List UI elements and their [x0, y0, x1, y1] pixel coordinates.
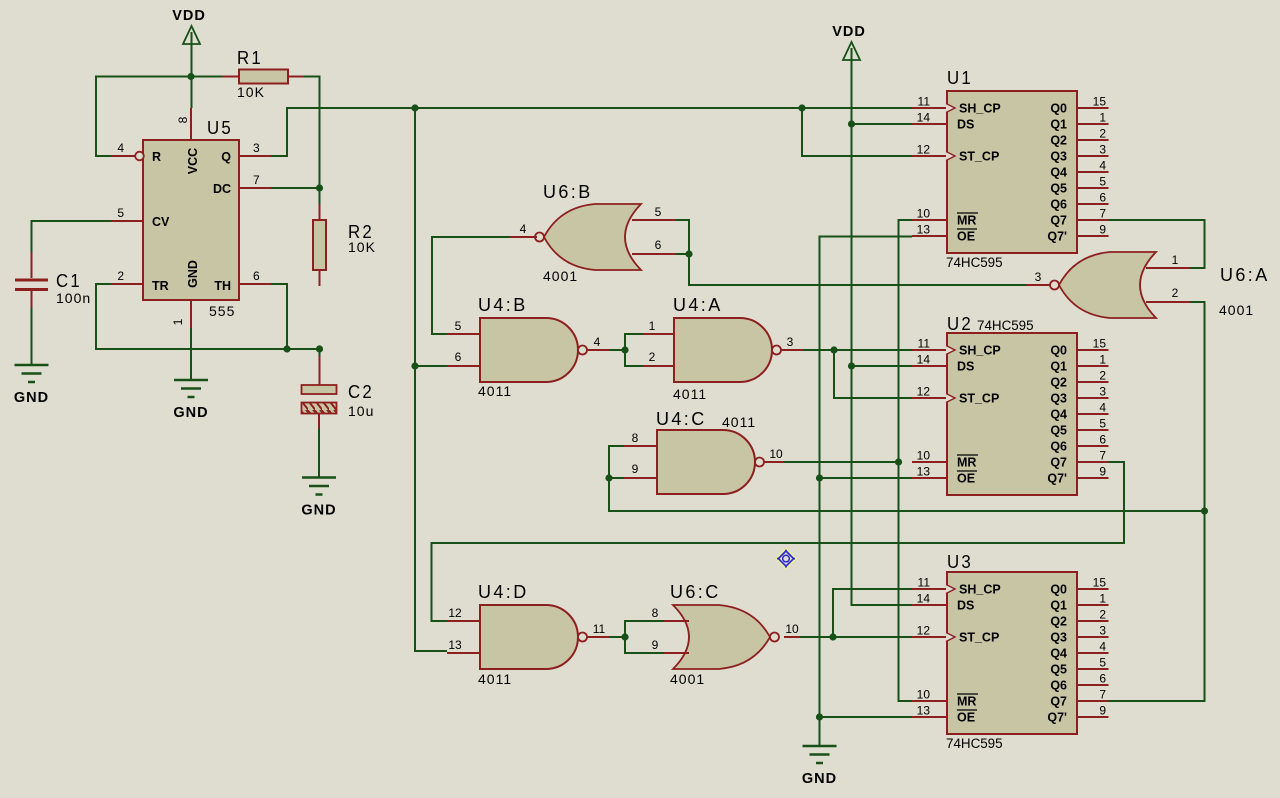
NAND gate U4:C [656, 409, 764, 494]
svg-text:11: 11 [918, 95, 931, 109]
junction [316, 184, 323, 191]
pin 10 U4:C output [764, 461, 784, 463]
svg-text:4: 4 [520, 222, 527, 236]
svg-text:9: 9 [1099, 223, 1106, 237]
wire U6:B input tie [676, 220, 689, 254]
NAND gate U4:D [478, 582, 587, 687]
pin 3 U6:A output [1026, 284, 1051, 286]
svg-text:Q7': Q7' [1047, 230, 1067, 244]
junction [895, 458, 902, 465]
junction [816, 474, 823, 481]
svg-text:SH_CP: SH_CP [959, 344, 1001, 358]
svg-text:10K: 10K [348, 239, 376, 255]
svg-text:74HC595: 74HC595 [946, 736, 1003, 751]
svg-text:10: 10 [917, 688, 931, 702]
svg-text:5: 5 [1099, 417, 1106, 431]
svg-text:9: 9 [1099, 465, 1106, 479]
svg-text:4: 4 [1099, 401, 1106, 415]
svg-text:2: 2 [1099, 127, 1106, 141]
wire U2 Q7 to U4:D pin12 [432, 462, 1125, 621]
svg-text:100n: 100n [56, 290, 91, 306]
svg-text:4011: 4011 [722, 414, 756, 430]
wire OE rail to U3 OE [820, 716, 913, 718]
wire branch to U1 ST_CP [802, 108, 912, 156]
svg-text:Q1: Q1 [1050, 599, 1067, 613]
svg-text:6: 6 [455, 350, 462, 364]
svg-text:10: 10 [769, 447, 783, 461]
svg-text:DS: DS [957, 118, 974, 132]
pin 10 U6:C output [784, 636, 800, 638]
NAND gate U4:B [478, 295, 587, 399]
svg-text:VCC: VCC [186, 148, 200, 174]
svg-text:VDD: VDD [832, 24, 866, 40]
resistor R2 [313, 204, 376, 286]
junction [283, 345, 290, 352]
svg-text:GND: GND [186, 260, 200, 288]
svg-text:4001: 4001 [670, 671, 705, 687]
wire U4:A output to U2 SH_CP [803, 349, 912, 351]
junction [621, 346, 628, 353]
svg-text:13: 13 [917, 704, 931, 718]
svg-text:GND: GND [802, 771, 837, 787]
svg-text:6: 6 [1099, 672, 1106, 686]
svg-text:4011: 4011 [673, 386, 707, 402]
wire VDD to pin8/R1 node [191, 44, 193, 108]
svg-text:2: 2 [117, 269, 124, 283]
svg-text:15: 15 [1093, 95, 1107, 109]
svg-text:10: 10 [917, 449, 931, 463]
svg-text:1: 1 [171, 318, 185, 325]
wire 555 pin1 to ground [190, 328, 192, 380]
svg-text:5: 5 [655, 205, 662, 219]
svg-text:9: 9 [632, 462, 639, 476]
svg-text:3: 3 [253, 141, 260, 155]
svg-text:10u: 10u [348, 403, 374, 419]
svg-text:Q4: Q4 [1050, 647, 1067, 661]
ground (555 pin1) [174, 380, 208, 397]
NOR gate U6:B (mirrored) [535, 182, 641, 284]
svg-text:11: 11 [918, 576, 931, 590]
svg-text:Q: Q [221, 150, 231, 164]
svg-text:4: 4 [1099, 159, 1106, 173]
svg-text:Q5: Q5 [1050, 663, 1067, 677]
svg-text:MR: MR [957, 214, 976, 228]
svg-text:12: 12 [917, 624, 931, 638]
wire U4:D output [609, 636, 625, 638]
svg-text:Q3: Q3 [1050, 631, 1067, 645]
svg-text:U2: U2 [947, 314, 973, 334]
pin 1 U6:A [1146, 267, 1190, 269]
svg-text:Q6: Q6 [1050, 198, 1067, 212]
svg-text:VDD: VDD [172, 8, 206, 24]
svg-text:Q7': Q7' [1047, 711, 1067, 725]
pin 9 U6:C [664, 652, 689, 654]
svg-text:OE: OE [957, 711, 975, 725]
shift register U2 74HC595 [912, 314, 1109, 495]
pin 13 U4:D [447, 652, 480, 654]
junction [685, 250, 692, 257]
pin 8 U6:C [664, 620, 689, 622]
junction [411, 362, 418, 369]
svg-text:2: 2 [1099, 369, 1106, 383]
wire Q-net branch down to U4:D pin13 [415, 108, 447, 651]
svg-text:10K: 10K [237, 84, 265, 100]
wire U4:C inputs to Q7-U3 net [609, 446, 1205, 511]
svg-text:555: 555 [209, 303, 235, 319]
pin 2 U4:A [643, 365, 674, 367]
svg-text:2: 2 [1099, 608, 1106, 622]
wire U4:D out to U6:C inputs [625, 621, 664, 653]
wire OE rail U1 to ground [820, 237, 913, 747]
wire 555 TH branch [271, 284, 287, 349]
svg-text:Q7: Q7 [1050, 214, 1067, 228]
svg-text:13: 13 [448, 638, 462, 652]
svg-text:3: 3 [1099, 385, 1106, 399]
svg-text:U4:B: U4:B [478, 295, 528, 315]
svg-text:13: 13 [917, 465, 931, 479]
wire C1 to ground [31, 291, 33, 365]
svg-text:U1: U1 [947, 68, 973, 88]
svg-text:Q1: Q1 [1050, 118, 1067, 132]
svg-text:7: 7 [253, 173, 260, 187]
wire OE rail to U2 OE [820, 477, 913, 479]
svg-text:7: 7 [1099, 688, 1106, 702]
svg-text:14: 14 [917, 592, 931, 606]
svg-text:U5: U5 [207, 118, 233, 138]
svg-text:OE: OE [957, 230, 975, 244]
svg-text:U4:A: U4:A [673, 295, 723, 315]
svg-text:MR: MR [957, 695, 976, 709]
svg-text:Q2: Q2 [1050, 134, 1067, 148]
pin 1 U4:A [643, 333, 674, 335]
svg-text:12: 12 [917, 143, 931, 157]
svg-text:MR: MR [957, 456, 976, 470]
wire 555 DC to R2 node [271, 187, 320, 189]
svg-text:9: 9 [1099, 704, 1106, 718]
svg-text:12: 12 [448, 606, 462, 620]
svg-text:Q5: Q5 [1050, 424, 1067, 438]
junction [829, 633, 836, 640]
svg-text:1: 1 [649, 319, 656, 333]
wire R1-left to 555 reset loop [96, 77, 222, 157]
junction [848, 362, 855, 369]
svg-text:U6:C: U6:C [670, 582, 721, 602]
svg-text:DS: DS [957, 599, 974, 613]
svg-text:6: 6 [1099, 191, 1106, 205]
NOR gate U6:C [670, 582, 779, 687]
svg-text:10: 10 [785, 622, 799, 636]
svg-text:11: 11 [918, 337, 931, 351]
svg-text:15: 15 [1093, 576, 1107, 590]
junction [605, 474, 612, 481]
svg-text:1: 1 [1099, 592, 1106, 606]
svg-text:7: 7 [1099, 449, 1106, 463]
pin 2 U6:A [1146, 301, 1190, 303]
pin 4 U4:B output [587, 349, 609, 351]
svg-text:4: 4 [594, 335, 601, 349]
pin 12 U4:D [447, 620, 480, 622]
svg-text:DS: DS [957, 360, 974, 374]
pin 5 U6:B [632, 219, 676, 221]
svg-text:Q0: Q0 [1050, 583, 1067, 597]
svg-text:10: 10 [917, 207, 931, 221]
svg-text:Q7': Q7' [1047, 472, 1067, 486]
junction [187, 73, 194, 80]
svg-text:4011: 4011 [478, 671, 512, 687]
wire U1 Q7 to U6:A pin1 [1109, 220, 1205, 268]
svg-text:4: 4 [1099, 640, 1106, 654]
svg-text:4011: 4011 [478, 383, 512, 399]
pin 6 U6:B [632, 253, 676, 255]
svg-text:Q0: Q0 [1050, 102, 1067, 116]
junction [1201, 507, 1208, 514]
svg-text:Q7: Q7 [1050, 695, 1067, 709]
wire R1-right down to R2/DC node [304, 77, 320, 205]
pin 4 U6:B output [510, 236, 537, 238]
wire 555 Q to U1 SH_CP net [271, 108, 912, 156]
svg-text:TR: TR [152, 279, 169, 293]
ground (OE rail) [803, 746, 837, 763]
svg-text:SH_CP: SH_CP [959, 583, 1001, 597]
svg-text:5: 5 [117, 206, 124, 220]
wire U4:B out to U4:A inputs [625, 334, 643, 366]
svg-text:74HC595: 74HC595 [977, 318, 1034, 333]
svg-text:Q3: Q3 [1050, 150, 1067, 164]
svg-text:C1: C1 [56, 271, 82, 291]
wire U6:C output to U3 ST_CP [800, 636, 912, 638]
svg-text:2: 2 [1172, 286, 1179, 300]
svg-text:Q0: Q0 [1050, 344, 1067, 358]
pin 11 U4:D output [587, 636, 609, 638]
junction [816, 713, 823, 720]
svg-text:R1: R1 [237, 48, 263, 68]
svg-text:14: 14 [917, 111, 931, 125]
wire U6:B output to U4:B pin5 [432, 237, 510, 334]
555 timer U5 [111, 108, 271, 328]
svg-text:C2: C2 [348, 382, 374, 402]
svg-text:5: 5 [1099, 656, 1106, 670]
wire U4:C output to MR rail [784, 461, 899, 463]
junction [830, 346, 837, 353]
svg-text:U6:B: U6:B [543, 182, 593, 202]
shift register U3 74HC595 [912, 552, 1109, 751]
svg-text:TH: TH [214, 279, 231, 293]
svg-text:12: 12 [917, 385, 931, 399]
NAND gate U4:A [673, 295, 781, 402]
svg-text:1: 1 [1172, 253, 1179, 267]
svg-text:13: 13 [917, 223, 931, 237]
svg-text:GND: GND [173, 405, 208, 421]
svg-text:11: 11 [593, 622, 606, 636]
svg-text:Q3: Q3 [1050, 392, 1067, 406]
svg-text:GND: GND [301, 503, 336, 519]
svg-text:5: 5 [1099, 175, 1106, 189]
origin marker [777, 550, 795, 568]
svg-text:Q4: Q4 [1050, 408, 1067, 422]
power VDD (left) [172, 8, 206, 44]
svg-text:14: 14 [917, 353, 931, 367]
svg-text:4: 4 [117, 141, 124, 155]
svg-text:Q7: Q7 [1050, 456, 1067, 470]
svg-text:ST_CP: ST_CP [959, 631, 999, 645]
svg-text:SH_CP: SH_CP [959, 102, 1001, 116]
svg-text:Q4: Q4 [1050, 166, 1067, 180]
svg-text:U6:A: U6:A [1220, 265, 1270, 285]
NOR gate U6:A (mirrored) [1050, 252, 1270, 318]
wire C2 to ground [318, 429, 320, 478]
svg-text:3: 3 [1035, 270, 1042, 284]
pin 9 U4:C [624, 477, 657, 479]
svg-text:9: 9 [652, 638, 659, 652]
wire branch to U2 ST_CP [834, 350, 912, 398]
svg-text:6: 6 [655, 238, 662, 252]
svg-text:3: 3 [1099, 143, 1106, 157]
shift register U1 74HC595 [912, 68, 1109, 270]
svg-text:5: 5 [455, 319, 462, 333]
svg-text:ST_CP: ST_CP [959, 392, 999, 406]
wire Q-net to U4:B pin6 [415, 365, 447, 367]
junction [316, 345, 323, 352]
wire 555 TR to R2/C2 node [96, 284, 320, 357]
wire U6:A pin2 to U3 Q7 [1109, 302, 1205, 701]
svg-text:U4:D: U4:D [478, 582, 529, 602]
capacitor C1 [15, 252, 91, 308]
svg-text:GND: GND [14, 390, 49, 406]
junction [411, 104, 418, 111]
wire U4:C pin9 [609, 477, 624, 479]
svg-text:DC: DC [213, 182, 231, 196]
wire U4:B output [609, 349, 625, 351]
svg-text:2: 2 [649, 350, 656, 364]
svg-text:CV: CV [152, 215, 170, 229]
svg-text:ST_CP: ST_CP [959, 150, 999, 164]
power VDD (right) [832, 24, 866, 60]
wire 555 CV to C1 [32, 221, 112, 252]
junction [798, 104, 805, 111]
svg-text:4001: 4001 [543, 268, 578, 284]
svg-text:15: 15 [1093, 337, 1107, 351]
svg-text:1: 1 [1099, 353, 1106, 367]
wire branch to U3 SH_CP [833, 589, 912, 637]
ground (C1) [15, 365, 49, 382]
svg-text:8: 8 [652, 606, 659, 620]
svg-text:U4:C: U4:C [656, 409, 707, 429]
resistor R1 [222, 48, 304, 100]
pin 6 U4:B [447, 365, 480, 367]
wire to U2 DS [852, 365, 913, 367]
svg-text:Q5: Q5 [1050, 182, 1067, 196]
svg-text:4001: 4001 [1219, 302, 1254, 318]
svg-text:74HC595: 74HC595 [946, 255, 1003, 270]
wire to U1 DS [852, 123, 913, 125]
junction [848, 120, 855, 127]
capacitor C2 [302, 356, 375, 429]
pin 5 U4:B [447, 333, 480, 335]
svg-text:Q2: Q2 [1050, 376, 1067, 390]
wire VDD rail down to U3 DS [852, 60, 913, 605]
svg-text:6: 6 [253, 269, 260, 283]
svg-text:R: R [152, 150, 161, 164]
svg-text:8: 8 [176, 116, 190, 123]
svg-text:OE: OE [957, 472, 975, 486]
svg-text:Q6: Q6 [1050, 440, 1067, 454]
svg-text:Q2: Q2 [1050, 615, 1067, 629]
svg-text:Q6: Q6 [1050, 679, 1067, 693]
svg-text:U3: U3 [947, 552, 973, 572]
svg-text:1: 1 [1099, 111, 1106, 125]
svg-text:3: 3 [787, 335, 794, 349]
wire MR rail U1 to U3 [899, 220, 913, 701]
ground (C2) [302, 478, 336, 495]
svg-text:3: 3 [1099, 624, 1106, 638]
wire U6:B inputs to U6:A output [689, 254, 1026, 285]
pin 3 U4:A output [781, 349, 803, 351]
svg-text:7: 7 [1099, 207, 1106, 221]
pin 8 U4:C [624, 445, 657, 447]
svg-text:8: 8 [632, 431, 639, 445]
junction [621, 633, 628, 640]
svg-text:6: 6 [1099, 433, 1106, 447]
svg-text:Q1: Q1 [1050, 360, 1067, 374]
